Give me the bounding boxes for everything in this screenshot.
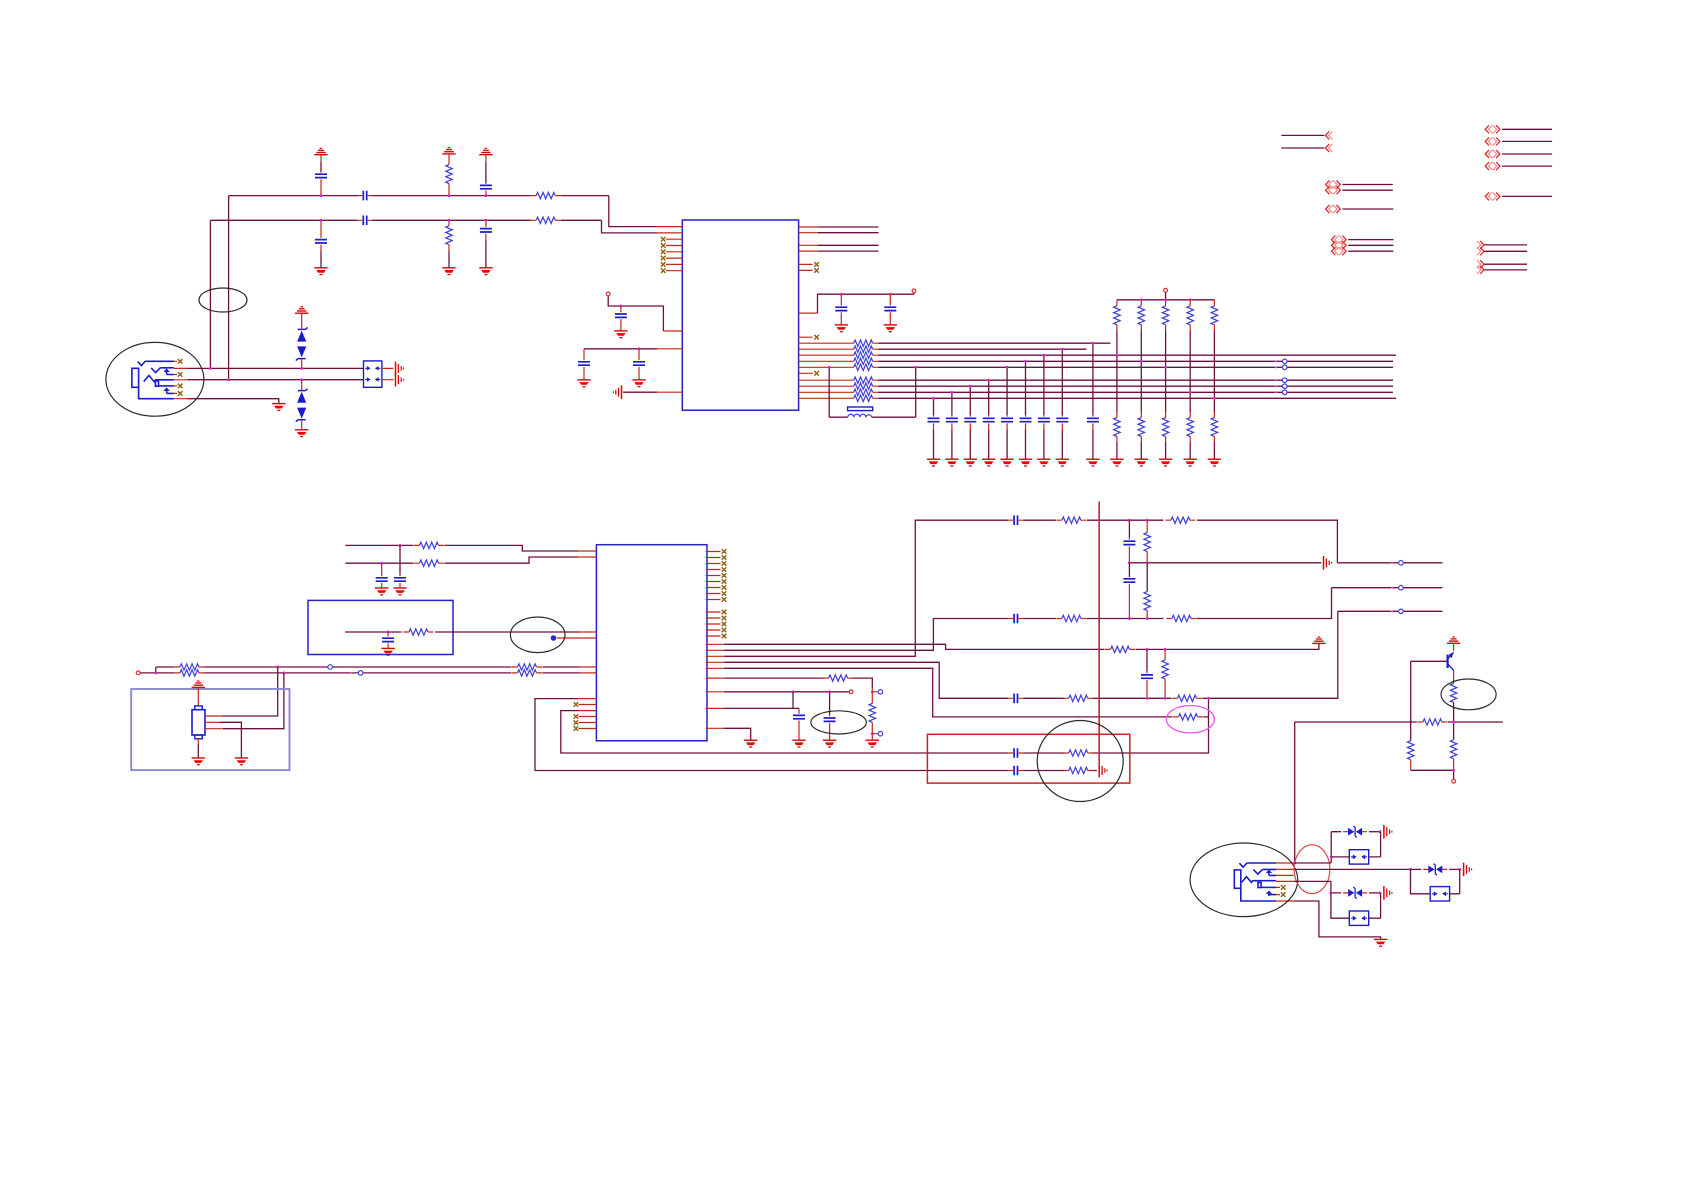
capacitor C20 series rowB [1008, 614, 1023, 624]
terminal circle [849, 690, 853, 694]
ground [823, 740, 836, 747]
capacitor C8 [583, 349, 585, 360]
resistor R30 [1450, 740, 1456, 759]
resistor R14 series rowA [1056, 517, 1086, 523]
resistor R7 [404, 629, 434, 635]
wire decoupling row into U1 [584, 348, 657, 350]
wire base divider [1411, 661, 1447, 740]
wire jack tip to bead [188, 367, 364, 369]
node dot [1189, 391, 1192, 394]
crystal box [131, 689, 289, 770]
resistor R25 series p678 [823, 675, 853, 681]
wire net p708 [724, 707, 799, 709]
capacitor CB9 [1092, 343, 1094, 415]
ground [1000, 459, 1013, 466]
ground [1037, 459, 1050, 466]
jack J1 highlight ellipse [106, 342, 204, 416]
ground [577, 380, 590, 387]
capacitor C18 between rowA and row562 [1128, 520, 1130, 537]
capacitor CB6 [1025, 361, 1027, 415]
no-connect X marks J2 [1281, 885, 1286, 890]
ferrite bead FB2 below bus [829, 367, 916, 417]
wire Q1 collector [1453, 670, 1455, 683]
test point circles on bus rows [1275, 360, 1277, 362]
ground [884, 325, 897, 332]
wire group G2 [1484, 264, 1527, 270]
wire U2 pin698 loop [535, 699, 1008, 771]
ground [1208, 459, 1221, 466]
node dot [320, 194, 323, 197]
off-page connector C [1326, 205, 1333, 213]
off-page connector B [1326, 181, 1333, 189]
ferrite bead FB4 [1411, 869, 1431, 893]
node dots row562 [1128, 561, 1131, 564]
wire to ground [1213, 442, 1215, 459]
capacitor CB3 [969, 386, 971, 415]
common mode choke FB1 [364, 361, 382, 387]
node dot [1458, 868, 1461, 871]
wire group E [1502, 129, 1552, 166]
capacitor C2 series on net2 [358, 216, 373, 226]
resistor network RN1 series on bus [848, 340, 878, 346]
capacitor C4 [485, 155, 487, 162]
wire to ground [1116, 442, 1118, 459]
jack J1 pin stubs [174, 361, 188, 398]
ground [272, 404, 285, 411]
resistor R8 [174, 664, 204, 670]
resistor R16 between rowA and row562 [1146, 520, 1148, 532]
capacitor C11 [889, 294, 891, 305]
node dot [1409, 868, 1412, 871]
ground [442, 268, 455, 275]
resistor RD1 pull-down [1116, 412, 1118, 418]
capacitor C12 [399, 545, 401, 574]
wire terminal to U1 pin [608, 296, 663, 331]
node dot [320, 219, 323, 222]
red annotation vertical line [1098, 502, 1100, 767]
capacitor CB2 [951, 392, 953, 415]
jack J2 body [1234, 863, 1276, 901]
capacitor C3 [320, 155, 322, 162]
chassis ground end row562 [1324, 556, 1332, 570]
capacitor C24 in ellipse [829, 692, 831, 715]
resistor R27 in ellipse [1450, 684, 1456, 703]
TVS diode D3 [1343, 826, 1367, 837]
wire net p678 [724, 678, 872, 687]
resistor RP3 pull-up [1165, 300, 1167, 306]
ground [381, 648, 394, 655]
crystal bottom pin to ground [197, 739, 199, 744]
wire to ground [1165, 442, 1167, 459]
node dot [484, 194, 487, 197]
resistor R19 series rowB [1166, 615, 1196, 621]
wire rowB mid [1023, 588, 1331, 619]
wire U1 out pair1 [818, 227, 879, 233]
node dots row722 [1409, 721, 1412, 724]
capacitor CB1 [933, 398, 935, 415]
off-page connector F [1485, 192, 1492, 200]
capacitor C1 series on net1 [358, 191, 373, 201]
wire row698 mid [1023, 611, 1338, 698]
crystal side pins [205, 716, 223, 729]
node dots rowA [1128, 519, 1131, 522]
chassis ground cluster3 [1464, 863, 1472, 877]
resistor R20 series row649 [1105, 646, 1135, 652]
ground [744, 740, 757, 747]
terminal circle [136, 671, 140, 675]
node dot [1061, 348, 1064, 351]
node dot [1042, 354, 1045, 357]
wire net1 drop into U1 pin1 [609, 196, 657, 227]
ground [835, 325, 848, 332]
jack J2 switch arrows [1266, 870, 1272, 873]
wire U2 input row2 [345, 557, 578, 563]
node dot [448, 219, 451, 222]
terminal circle [912, 289, 916, 293]
TVS diode D5 [1343, 887, 1367, 898]
node dot [638, 347, 641, 350]
wire column [1165, 331, 1167, 412]
ground [1056, 459, 1069, 466]
wire long vertical to jack [1294, 722, 1296, 863]
FB1 right stubs [382, 368, 394, 379]
node dot [1140, 360, 1143, 363]
wire group D [1348, 240, 1393, 252]
ground [1086, 459, 1099, 466]
wire net p728 to ground [724, 728, 751, 740]
ground [632, 380, 645, 387]
node dots [840, 293, 843, 296]
capacitor CB7 [1043, 355, 1045, 415]
node dot [950, 391, 953, 394]
net tie circle [328, 665, 333, 670]
node dots row698 [1146, 697, 1149, 700]
resistor R21 between row649 and row698 [1164, 649, 1166, 660]
node dots [399, 544, 402, 547]
resistor RP4 pull-up [1189, 300, 1191, 306]
capacitor C15 series row753 [1008, 748, 1023, 758]
capacitor C10 [840, 294, 842, 305]
wire jack ring to bead [188, 379, 364, 381]
resistor RD4 pull-down [1189, 412, 1191, 418]
wire net p691 [724, 691, 849, 693]
resistor RD2 pull-down [1140, 412, 1142, 418]
chassis ground cluster1 [1384, 825, 1392, 839]
power symbol above crystal [192, 681, 205, 687]
node dots cluster1 [1378, 830, 1381, 833]
node dot [1115, 354, 1118, 357]
resistor R4 below net2 [448, 220, 450, 225]
resistor RD5 pull-down [1213, 412, 1215, 418]
ground [1019, 459, 1032, 466]
wire jack sleeve to ground [188, 399, 279, 404]
ground [927, 459, 940, 466]
off-page connector A1 [1325, 131, 1332, 139]
resistor RP1 pull-up [1116, 300, 1118, 306]
resistor R18 series rowB [1056, 615, 1086, 621]
wire column [1116, 331, 1118, 412]
jack J2 highlight ellipse [1190, 843, 1298, 917]
jack J1 switch arrows [163, 368, 169, 372]
wire net p656 to row A [724, 520, 1008, 656]
no-connect X marks U2 left [574, 702, 579, 707]
capacitor C17 series rowA [1008, 515, 1023, 525]
resistor R17 between row562 and rowB [1146, 563, 1148, 592]
transistor Q1 [1453, 643, 1455, 651]
ground [614, 331, 627, 338]
ground [964, 459, 977, 466]
capacitor CB5 [1006, 367, 1008, 415]
wire D4 to chassis [1449, 868, 1460, 870]
resistor R2 series on net2 [531, 217, 561, 223]
off-page connector D [1332, 236, 1339, 244]
ground [314, 268, 327, 275]
wire inside X1 to U2 [345, 631, 579, 633]
node dots on jack nets [209, 367, 212, 370]
U1 right bus pin stubs [799, 343, 849, 398]
capacitor CB4 [988, 380, 990, 415]
wire net p668 to row716 [724, 668, 1208, 717]
resistor R15 series rowA [1165, 517, 1195, 523]
chassis ground [396, 362, 404, 376]
crystal Y1 [197, 687, 199, 706]
wire net p662 to row698 [724, 662, 1008, 698]
node dots cluster2 [1378, 891, 1381, 894]
node dot [969, 385, 972, 388]
node dots rowB [1128, 617, 1131, 620]
wire U2 pin710 loop [561, 711, 1009, 753]
node dot [1006, 366, 1009, 369]
jack J1 body [132, 361, 174, 398]
resistor R12 series row753 [1063, 750, 1093, 756]
wire link 691-708 [792, 692, 794, 709]
ground [1184, 459, 1197, 466]
U2 right no-connect stubs group1 [706, 552, 721, 600]
inductor L1 coil [848, 414, 872, 417]
capacitor CB8 [1061, 349, 1063, 415]
capacitor C5 below net2 [320, 220, 322, 238]
capacitor C14 [387, 632, 389, 637]
wire group A [1281, 135, 1324, 148]
highlight ellipse C24 [811, 711, 866, 734]
no-connect X marks U1 right [814, 262, 819, 267]
wire rowB tail to test points [1332, 587, 1443, 589]
ground [295, 430, 308, 437]
resistor R13 series row770 [1063, 767, 1093, 773]
resistor R29 [1408, 741, 1414, 760]
wire U1 power rail [818, 293, 915, 313]
wire group G1 [1484, 245, 1527, 251]
ground [1374, 939, 1387, 946]
wire base row722 [1295, 721, 1503, 723]
capacitor C9 [638, 349, 640, 360]
red annotation rectangle [927, 734, 1129, 783]
wire bus rows right of resistors [878, 343, 1396, 398]
power symbol VCC1 [314, 148, 327, 154]
power symbol VCC3 [479, 148, 492, 154]
node dot [1091, 342, 1094, 345]
ground [866, 740, 879, 747]
resistor R10 [512, 664, 542, 670]
node dots on column [871, 690, 874, 693]
wire column [1140, 331, 1142, 412]
black annotation circle [1037, 721, 1123, 802]
resistor R5 [414, 542, 444, 548]
node dots row649 [1146, 648, 1149, 651]
resistor RP5 pull-up [1213, 300, 1215, 306]
ferrite bead FB3 [1331, 856, 1349, 858]
wire bottom link [1411, 770, 1454, 779]
wire tip net to TVS cluster1 [1295, 832, 1342, 863]
X marks group2 [722, 610, 727, 615]
wire row698 tail to test points [1338, 610, 1443, 612]
node dot [619, 305, 622, 308]
ground [792, 740, 805, 747]
capacitor C13 [381, 563, 383, 576]
node dot [1164, 366, 1167, 369]
resistor R6 [414, 560, 444, 566]
wire U1 out pair2 [818, 245, 879, 251]
wire net p644 jog [724, 643, 1319, 649]
wire rowA tail to test points [1337, 562, 1442, 564]
no-connect X marks J1 [178, 359, 183, 364]
chassis ground end of row770 [1099, 764, 1107, 778]
resistor RD3 pull-down [1165, 412, 1167, 418]
twisted pair ellipse annotation [199, 288, 247, 312]
wire net row 667 [156, 666, 580, 668]
wire bus row net1 y=195.6 [229, 195, 609, 197]
wire row770 cont [1023, 770, 1097, 772]
U2 right pin stubs wired [706, 644, 725, 728]
TVS diode D2 [301, 380, 303, 385]
node dots p691 [792, 690, 795, 693]
terminal circle [1164, 288, 1168, 292]
power symbol VCC2 [442, 148, 455, 154]
jack J2 pin stubs [1276, 863, 1295, 901]
resistor R28 series row722 [1417, 719, 1447, 725]
wire D5 to chassis [1369, 892, 1380, 894]
resistor R24 series row716 [1173, 714, 1203, 720]
node dot [1024, 360, 1027, 363]
net tie circle [358, 671, 363, 676]
resistor R23 series row698 [1172, 695, 1202, 701]
off-page connector G1 [1477, 241, 1484, 249]
terminal circle [606, 292, 610, 296]
off-page connector G2 [1477, 260, 1484, 268]
wire to ground [1140, 442, 1142, 459]
TVS diode D1 [301, 313, 303, 323]
ground [375, 588, 388, 595]
test circles on column [872, 692, 878, 734]
ground [945, 459, 958, 466]
capacitor C19 between row562 and rowB [1128, 563, 1130, 577]
wire vertical from jack tip net to net2 [209, 220, 211, 368]
wire rowA mid [1023, 520, 1337, 563]
wire group B [1342, 185, 1392, 191]
wire net row 673 [140, 672, 579, 674]
wire third contact to TVS cluster2 [1294, 881, 1341, 893]
pink highlight ellipse [1166, 706, 1214, 733]
capacitor C16 series row770 [1008, 766, 1023, 776]
U2 right no-connect stubs group2 [706, 612, 721, 636]
wire group F [1502, 195, 1552, 197]
node dots [154, 671, 157, 674]
off-page connector A2 [1325, 144, 1332, 152]
off-page connector E [1485, 125, 1492, 133]
blue box X1 [308, 600, 453, 654]
resistor RP2 pull-up [1140, 300, 1142, 306]
crystal middle pin to ground [205, 721, 220, 723]
highlight ellipse U2 pins [510, 617, 565, 653]
resistor network RN2 series on bus [848, 377, 878, 383]
U2 left pin stubs [557, 551, 596, 729]
wire net p650 to rowB [724, 619, 1008, 651]
wire D3 to chassis [1369, 831, 1380, 833]
ground [393, 588, 406, 595]
chassis ground at U1 pin [614, 385, 622, 399]
power symbol above TVS D1 [295, 307, 308, 313]
node dot [1213, 397, 1216, 400]
ferrite bead FB5 [1331, 893, 1349, 918]
TVS diode D4 [1423, 864, 1447, 875]
wire chassis to U1 [623, 391, 657, 393]
resistor R9 [174, 670, 204, 676]
node dot [387, 631, 390, 634]
wire net2 drop into U1 pin2 [602, 220, 658, 233]
power symbol end row649 [1312, 637, 1325, 643]
resistor R22 series row698 [1063, 695, 1093, 701]
wire group C [1342, 208, 1393, 210]
wire link [155, 667, 157, 673]
capacitor C7 [620, 306, 622, 312]
resistor R3 vertical [448, 154, 450, 165]
wire vertical from jack ring net to net1 [228, 196, 230, 380]
resistor R26 column to ground [871, 688, 873, 704]
ground [235, 758, 248, 765]
capacitor C22 series row698 [1008, 694, 1023, 704]
wire row562 [1129, 562, 1321, 564]
wire sleeve to ground [1294, 901, 1381, 939]
ground [982, 459, 995, 466]
chassis ground [396, 373, 404, 387]
node dots on rail [1140, 298, 1143, 301]
ground [1135, 459, 1148, 466]
IC U2 body [596, 545, 707, 741]
wire U2 input row1 [345, 545, 578, 551]
node dot [987, 379, 990, 382]
ground [192, 758, 205, 765]
resistor R11 [512, 670, 542, 676]
X marks group1 [722, 549, 727, 554]
blue probe dot at U2 pin [551, 635, 557, 641]
capacitor C6 below net2 [485, 220, 487, 227]
resistor R1 series on net1 [531, 192, 561, 198]
chassis ground cluster2 [1384, 886, 1392, 900]
wire to ground [1189, 442, 1191, 459]
node dot [1452, 769, 1455, 772]
highlight ellipse R27 [1441, 679, 1496, 710]
wire bus row net2 y=220.3 [210, 219, 601, 221]
wire power rail [1117, 292, 1215, 300]
U1 right pin stubs [799, 227, 818, 373]
capacitor C21 between row649 and row698 [1146, 649, 1148, 671]
U1 left pin stubs [656, 227, 682, 393]
node dot [484, 219, 487, 222]
node dot [448, 194, 451, 197]
node dot [932, 397, 935, 400]
terminal circle [1452, 779, 1456, 783]
power symbol above Q1 [1447, 637, 1460, 643]
